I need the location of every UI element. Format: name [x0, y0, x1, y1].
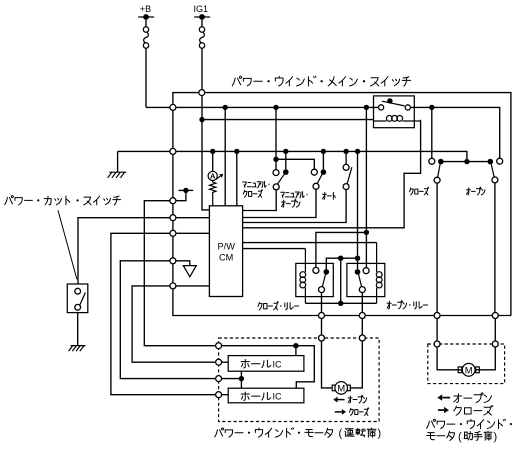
junction hall feed: [293, 343, 298, 348]
SW1 common: [273, 184, 279, 190]
connector motor2 R: [492, 341, 498, 347]
label manual open: [281, 192, 308, 199]
wire bus v3: [172, 204, 174, 215]
wire to ground2: [77, 313, 79, 346]
junction auto contact: [343, 149, 348, 154]
motor M1 driver: [322, 341, 333, 388]
wire SW3 to P/W CM: [243, 190, 347, 223]
hall IC 1 box: [228, 356, 304, 372]
open relay contact fixed: [363, 268, 369, 274]
motor M2 brush L: [458, 367, 462, 373]
wire +B down: [145, 48, 147, 107]
label close relay: [258, 302, 299, 310]
label driver motor: [215, 428, 333, 438]
connector bus/y151: [170, 148, 176, 154]
svg-text:M: M: [465, 365, 473, 376]
connector motor1 L: [319, 335, 325, 341]
connector bus/+B: [170, 104, 176, 110]
open arm: [491, 164, 494, 177]
wire +B to open relay contact: [365, 107, 367, 267]
svg-text:A: A: [210, 172, 216, 181]
junction sw feed: [273, 105, 278, 110]
wire to close relay contact: [316, 232, 367, 267]
wire p4 to hall junction: [120, 261, 215, 379]
junction stub: [183, 188, 188, 193]
SW3 arm: [347, 167, 352, 184]
relay RL1 contact R: [405, 105, 410, 110]
wire bottom bus: [173, 289, 511, 316]
label open: [466, 187, 484, 195]
wire y151 to relay contacts: [357, 151, 359, 269]
wire close common down: [436, 183, 438, 313]
label hall IC 2: [241, 392, 271, 400]
power cut contact bottom: [75, 304, 81, 310]
ground G1: [108, 172, 127, 178]
junction contact bus: [464, 159, 469, 164]
wire RL3 out: [361, 293, 363, 313]
wire p3 to hall2: [111, 233, 216, 394]
motor M1 brush L: [332, 385, 336, 391]
relay RL2 arm: [322, 272, 326, 287]
wire IG1 to fuse: [201, 20, 203, 27]
wire close to motor2: [436, 318, 438, 341]
wire +B to fuse: [145, 20, 147, 27]
SW1 arm: [277, 173, 285, 185]
wire RL2 out: [321, 293, 323, 313]
wire open to motor2: [494, 318, 496, 341]
SW3 common: [343, 184, 349, 190]
wire p3 to P/W CM: [176, 232, 210, 234]
svg-text:M: M: [337, 383, 345, 394]
connector motor2 L: [434, 341, 440, 347]
wire bus v6: [172, 264, 174, 283]
signal ground triangle: [183, 266, 196, 277]
wire p1 to hall feed: [144, 201, 215, 346]
label: power window main switch: [232, 76, 410, 86]
wire RL1 coil return to P/W CM: [243, 120, 421, 228]
connector bus p2: [170, 215, 176, 221]
junction close contact drop: [429, 105, 434, 110]
relay RL1 pivot: [387, 98, 392, 103]
wire hall feed: [222, 346, 315, 389]
junction SW1/SW2 feed: [273, 157, 278, 162]
wire IG1 down: [201, 48, 203, 89]
connector bus p4: [170, 258, 176, 264]
wire bus to coil common: [340, 258, 342, 303]
junction relay contact bus: [355, 149, 360, 154]
wire p5 to hall1: [132, 286, 216, 362]
SW1 contact R: [283, 169, 289, 175]
node IG1 junction: [199, 90, 205, 96]
svg-text:): ): [494, 431, 498, 443]
connector close line: [434, 313, 440, 319]
wire feed to hall1: [295, 346, 297, 356]
connector hall d: [216, 392, 222, 398]
label passenger motor: [427, 419, 512, 428]
wire p2 to P/W CM: [176, 217, 210, 219]
wire IG1 to RL1 coil: [204, 119, 374, 121]
wire SW1 to P/W CM: [243, 190, 277, 211]
wire P/W CM to RL3 coil: [243, 242, 377, 244]
close relay contact fed: [324, 269, 330, 275]
junction relay bus/coil: [338, 256, 343, 261]
open relay RL3 box: [347, 263, 385, 296]
stub terminal: [176, 190, 186, 200]
fuse F1 (+B): [143, 27, 148, 32]
close relay contact fixed: [313, 267, 319, 273]
junction CM drop: [234, 149, 239, 154]
wire bus v5: [172, 236, 174, 258]
SW2 common: [313, 183, 319, 189]
wire relay contact bus: [326, 258, 357, 272]
wire d to hall2: [222, 394, 229, 396]
label open relay: [387, 301, 428, 309]
power cut arm: [80, 293, 85, 305]
wire p4 stub: [176, 261, 190, 266]
relay RL1 coil: [374, 120, 421, 122]
motor M2 passenger: [437, 347, 462, 370]
wire SW2 to P/W CM: [243, 189, 316, 217]
label close: [409, 187, 428, 195]
switch SW3 auto: [345, 151, 347, 164]
power cut contact top: [75, 288, 81, 294]
IG1 terminal: [194, 16, 210, 18]
SW2 arm: [317, 173, 323, 184]
svg-text:P/W: P/W: [218, 241, 236, 251]
svg-text:(: (: [339, 428, 343, 440]
connector RL3 out: [359, 313, 365, 319]
driver motor unit box: [219, 338, 380, 422]
wire +B feed a: [146, 106, 170, 108]
SW3 contact: [343, 164, 349, 170]
P/W CM module box: [209, 206, 242, 297]
wire RL3 to motor1: [361, 318, 363, 335]
svg-text:IG1: IG1: [194, 4, 209, 14]
relay RL3 arm pivot: [359, 287, 365, 293]
wire bus v4: [172, 221, 174, 231]
label hall IC 1: [241, 360, 271, 368]
junction sw1 contact: [283, 149, 288, 154]
connector bus p5: [170, 283, 176, 289]
relay RL1 arm: [382, 101, 405, 106]
contact close: [431, 107, 433, 158]
close contact fed: [438, 159, 444, 165]
wire to ground: [117, 151, 119, 171]
wire p2 to power cut switch: [78, 218, 170, 284]
wire +B feed b: [176, 106, 379, 108]
open contact fed: [488, 159, 494, 165]
close relay RL2 box: [296, 263, 334, 296]
switch SW1 manual close: [275, 107, 277, 169]
open relay contact fed: [355, 269, 361, 275]
wire SW2 contact R feed: [322, 151, 324, 169]
relay RL1 box: [374, 96, 415, 128]
ground G2: [69, 346, 86, 352]
wire IG1 to left bus: [173, 93, 199, 105]
relay RL2 arm pivot: [319, 287, 325, 293]
relay RL3 coil: [376, 243, 378, 304]
wire hall1-hall2: [240, 371, 242, 388]
SW1 contact L: [273, 170, 279, 176]
svg-text:+B: +B: [140, 4, 151, 14]
wire contact bus: [441, 161, 491, 163]
wire coil common bus: [305, 302, 376, 304]
wire y151 to P/W CM: [236, 151, 238, 205]
wire +B feed c: [411, 107, 500, 158]
wire to SW2 contact: [276, 159, 314, 169]
wire p5 to P/W CM: [176, 285, 210, 287]
open contact fixed R: [497, 158, 503, 164]
connector RL2 out: [319, 313, 325, 319]
motor M1 brush R: [347, 385, 351, 391]
junction coil bus: [338, 301, 343, 306]
junction sensor: [210, 149, 215, 154]
junction relay bus drop: [364, 105, 369, 110]
label auto: [322, 192, 335, 199]
svg-text:CM: CM: [219, 252, 233, 262]
relay RL2 coil: [304, 249, 306, 304]
wire b to hall1: [222, 361, 229, 363]
passenger motor unit box: [428, 344, 505, 384]
wire open common down: [494, 183, 496, 313]
fuse F2 (IG1): [199, 27, 204, 32]
close contact fixed L: [429, 158, 435, 164]
connector hall b: [216, 359, 222, 365]
SW2 contact L: [311, 169, 317, 175]
SW2 contact R: [321, 169, 327, 175]
svg-text:IC: IC: [273, 359, 283, 369]
+B terminal: [138, 16, 154, 18]
connector bus p1: [170, 198, 176, 204]
current sensor A1: [212, 151, 214, 171]
junction coil feed: [199, 117, 204, 122]
wire c to hall junction: [222, 378, 242, 380]
svg-text:(: (: [458, 431, 462, 443]
resistor R1: [210, 181, 216, 206]
connector open line: [492, 313, 498, 319]
wire main y151 bus: [176, 151, 467, 159]
junction branch close relay: [364, 230, 369, 235]
junction relay bus: [355, 256, 360, 261]
junction sw2 contact: [321, 149, 326, 154]
power cut switch box: [67, 284, 88, 313]
wire SW1 contact R feed: [285, 151, 287, 169]
close arm: [438, 164, 441, 177]
relay RL3 arm: [358, 272, 362, 287]
connector hall a: [216, 343, 222, 349]
connector hall c: [216, 376, 222, 382]
connector motor1 R: [359, 335, 365, 341]
open common: [492, 177, 498, 183]
svg-text:IC: IC: [273, 392, 283, 402]
wire P/W CM to RL2 coil: [243, 248, 306, 250]
label power cut switch: [5, 196, 121, 205]
close common: [434, 177, 440, 183]
svg-text:): ): [378, 428, 382, 440]
motor M2 brush R: [476, 367, 480, 373]
hall IC 2 box: [228, 388, 304, 403]
wire RL2 to motor1: [321, 318, 323, 335]
relay RL1 contact L: [379, 105, 384, 110]
label manual close: [243, 181, 270, 188]
wire IG1 feed right/down: [205, 93, 511, 316]
connector bus p3: [170, 230, 176, 236]
wire bus feed left: [118, 150, 170, 152]
wire IG1 to P/W CM: [202, 96, 209, 210]
leader line: [58, 210, 77, 279]
junction hall c: [239, 376, 244, 381]
wire +B to P/W CM: [224, 107, 226, 205]
junction +B drop: [223, 105, 228, 110]
wire bus v2: [172, 154, 174, 198]
wire bus v1: [172, 110, 174, 148]
